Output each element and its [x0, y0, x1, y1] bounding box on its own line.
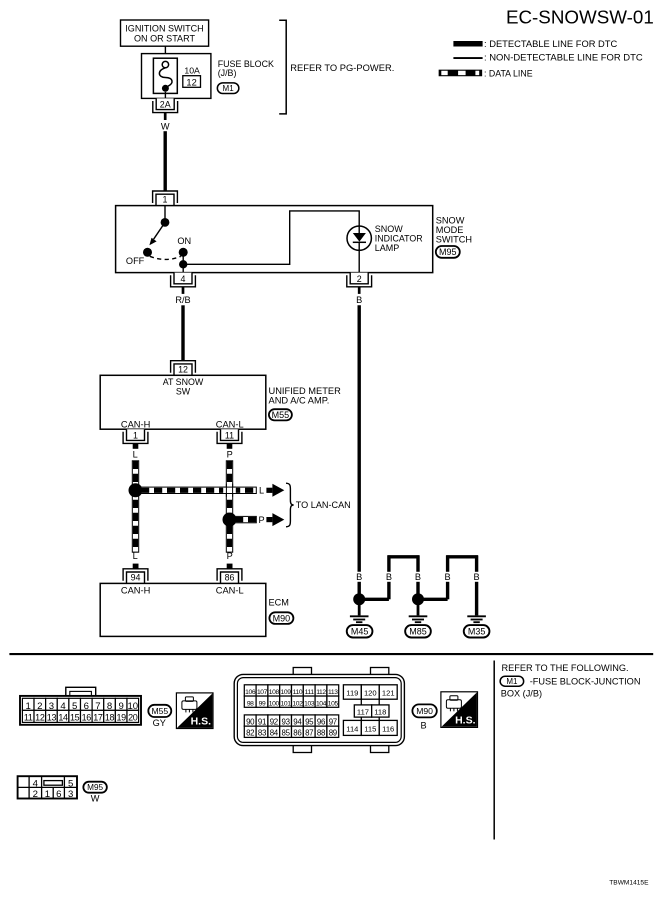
- text refer to pg-power: [290, 63, 394, 73]
- svg-text:B: B: [421, 721, 427, 731]
- svg-text:W: W: [91, 794, 100, 804]
- svg-text:IGNITION SWITCH: IGNITION SWITCH: [125, 24, 203, 34]
- svg-text:SW: SW: [176, 386, 191, 396]
- svg-text:10: 10: [127, 701, 138, 712]
- ground M45 oval: [347, 625, 373, 637]
- svg-text:11: 11: [225, 430, 234, 440]
- svg-text:(J/B): (J/B): [218, 68, 237, 78]
- svg-text:13: 13: [47, 713, 57, 723]
- svg-text:P: P: [227, 450, 233, 460]
- snow mode switch label: [436, 216, 472, 245]
- svg-text:M90: M90: [416, 706, 433, 716]
- svg-text:12: 12: [186, 77, 196, 87]
- separator vertical footer: [493, 661, 495, 840]
- connector 11 (CAN-L meter): [217, 429, 242, 443]
- svg-text:12: 12: [178, 364, 188, 374]
- svg-text:112: 112: [316, 689, 326, 696]
- svg-text:H.S.: H.S.: [455, 714, 476, 726]
- P branch label and arrow: [259, 513, 285, 526]
- wire B (black) from switch: [356, 287, 362, 572]
- svg-text:15: 15: [70, 713, 80, 723]
- separator line top of footer: [9, 653, 653, 655]
- H.S. icon right: [441, 692, 478, 728]
- svg-text:5: 5: [68, 778, 73, 789]
- svg-text:6: 6: [56, 789, 61, 800]
- svg-text:98: 98: [247, 700, 254, 707]
- svg-text:4: 4: [181, 274, 186, 284]
- svg-text:102: 102: [292, 700, 303, 707]
- legend non-detectable line: [453, 53, 642, 64]
- svg-text:82: 82: [246, 729, 254, 738]
- svg-text:P: P: [259, 515, 265, 525]
- fuse F12 10A symbol: [153, 58, 177, 98]
- snow mode switch box: [116, 206, 433, 273]
- svg-text:CAN-L: CAN-L: [216, 419, 244, 429]
- svg-text:10A: 10A: [184, 66, 200, 76]
- svg-text:L: L: [259, 486, 264, 496]
- svg-text:L: L: [133, 551, 138, 561]
- svg-text:ECM: ECM: [269, 598, 289, 608]
- svg-text:SWITCH: SWITCH: [436, 234, 472, 244]
- svg-text:REFER TO THE FOLLOWING.: REFER TO THE FOLLOWING.: [502, 663, 629, 673]
- data line crossing window: [223, 484, 236, 497]
- svg-text:12: 12: [35, 713, 45, 723]
- title EC-SNOWSW-01: [506, 6, 654, 27]
- wire B into ground 1: [358, 582, 361, 600]
- wire ignition to fuse: [164, 46, 166, 61]
- connector 86 (CAN-L ECM): [217, 569, 242, 584]
- wire loop ground2 to ground3: [418, 555, 478, 615]
- svg-text:GY: GY: [153, 718, 166, 728]
- svg-text:121: 121: [382, 688, 395, 697]
- svg-text:104: 104: [316, 700, 327, 707]
- svg-text:5: 5: [72, 701, 77, 712]
- svg-text:CAN-L: CAN-L: [216, 585, 244, 595]
- svg-text:B: B: [445, 572, 451, 582]
- svg-text:: DATA LINE: : DATA LINE: [484, 68, 533, 78]
- connector 2: [347, 273, 372, 287]
- svg-text:TBWM1415E: TBWM1415E: [609, 879, 649, 886]
- M55 connector pinout: [20, 687, 141, 725]
- svg-text:99: 99: [259, 700, 266, 707]
- svg-text:W: W: [161, 121, 170, 131]
- svg-text:M1: M1: [223, 84, 235, 93]
- svg-text:CAN-H: CAN-H: [121, 585, 150, 595]
- svg-text:M90: M90: [273, 613, 291, 623]
- svg-text:EC-SNOWSW-01: EC-SNOWSW-01: [506, 6, 654, 27]
- M90 oval footer: [412, 704, 436, 717]
- svg-text:1: 1: [26, 701, 31, 712]
- svg-text:87: 87: [305, 729, 313, 738]
- svg-text:92: 92: [270, 717, 278, 726]
- svg-text:9: 9: [118, 701, 123, 712]
- svg-text:94: 94: [293, 717, 302, 726]
- switch output junction dot: [179, 260, 187, 268]
- svg-text:84: 84: [270, 729, 279, 738]
- OFF label: [126, 256, 145, 266]
- svg-text:89: 89: [329, 729, 338, 738]
- M95 connector pinout: [18, 776, 77, 800]
- CAN-L junction dot: [223, 513, 237, 527]
- svg-text:111: 111: [305, 689, 315, 696]
- wire R/B (red/black): [175, 287, 190, 361]
- svg-text:: DETECTABLE LINE FOR DTC: : DETECTABLE LINE FOR DTC: [484, 39, 618, 49]
- connector M1 oval: [217, 83, 239, 94]
- svg-text:2: 2: [33, 789, 38, 800]
- svg-text:103: 103: [304, 700, 315, 707]
- svg-text:M45: M45: [351, 627, 369, 637]
- wire loop ground1 to ground2: [359, 555, 419, 599]
- svg-text:17: 17: [93, 713, 103, 723]
- fuse block label: [218, 59, 274, 78]
- svg-text:16: 16: [82, 713, 92, 723]
- svg-text:1: 1: [133, 430, 138, 440]
- svg-text:OFF: OFF: [126, 256, 145, 266]
- connector M95 oval: [436, 246, 460, 258]
- svg-text:M35: M35: [468, 627, 486, 637]
- wire into switch pivot: [164, 206, 166, 223]
- svg-text:11: 11: [24, 713, 33, 723]
- svg-text:96: 96: [317, 717, 326, 726]
- ground symbol M85: [409, 616, 428, 622]
- svg-text:95: 95: [305, 717, 314, 726]
- svg-text:M85: M85: [409, 627, 427, 637]
- connector M90 oval: [269, 612, 293, 624]
- svg-text:M95: M95: [439, 247, 457, 257]
- wire junction to lamp: [183, 211, 359, 273]
- CAN-H branch data line to LAN: [141, 487, 256, 493]
- ECM box: [100, 583, 266, 636]
- ON contact dot: [179, 248, 188, 257]
- svg-text:3: 3: [68, 789, 73, 800]
- svg-text:L: L: [133, 450, 138, 460]
- dashed travel arc: [150, 256, 181, 259]
- svg-text:118: 118: [374, 707, 386, 716]
- connector 2A: [153, 98, 178, 112]
- svg-text:M95: M95: [87, 783, 103, 792]
- fuse value 10A and number 12: [183, 66, 201, 88]
- svg-text:: NON-DETECTABLE LINE FOR DTC: : NON-DETECTABLE LINE FOR DTC: [484, 53, 643, 64]
- drawing code TBWM1415E: [609, 879, 649, 886]
- svg-text:6: 6: [84, 701, 89, 712]
- wire W (white): [161, 113, 170, 191]
- ground M35 oval: [464, 625, 490, 637]
- svg-text:H.S.: H.S.: [191, 716, 212, 728]
- svg-text:93: 93: [282, 717, 291, 726]
- ground junction dot M45: [353, 593, 365, 615]
- svg-text:97: 97: [329, 717, 337, 726]
- H.S. icon left: [176, 693, 213, 729]
- svg-text:B: B: [474, 572, 480, 582]
- refer to the following text: [502, 663, 629, 673]
- svg-text:8: 8: [107, 701, 112, 712]
- svg-text:CAN-H: CAN-H: [121, 419, 150, 429]
- svg-text:2: 2: [37, 701, 42, 712]
- brace to lan-can: [286, 483, 294, 527]
- svg-text:14: 14: [58, 713, 68, 723]
- connector 1 (CAN-H meter): [123, 429, 148, 443]
- connector 94 (CAN-H ECM): [123, 569, 148, 584]
- ignition switch box: [121, 20, 209, 46]
- snow indicator lamp (LED): [347, 226, 371, 250]
- M95 colour W: [91, 794, 100, 804]
- svg-text:116: 116: [382, 724, 394, 733]
- M95 oval footer: [83, 782, 107, 793]
- CAN-L data line vertical: [226, 461, 232, 552]
- connector M55 oval: [269, 409, 292, 420]
- svg-text:B: B: [356, 295, 362, 305]
- M90 connector pinout: [234, 668, 404, 753]
- svg-text:BOX (J/B): BOX (J/B): [501, 688, 542, 698]
- svg-text:REFER TO PG-POWER.: REFER TO PG-POWER.: [290, 63, 394, 73]
- unified meter and a/c amp box: [100, 375, 266, 429]
- svg-text:115: 115: [364, 724, 376, 733]
- snow indicator lamp label: [375, 224, 423, 253]
- M1 oval footer: [500, 676, 524, 686]
- wire ON to connector 4: [182, 252, 184, 272]
- svg-text:TO LAN-CAN: TO LAN-CAN: [296, 500, 351, 510]
- CAN-L (P) stub below connector 11: [227, 443, 233, 459]
- svg-text:M55: M55: [151, 706, 168, 716]
- svg-text:113: 113: [328, 689, 338, 696]
- svg-text:106: 106: [245, 689, 256, 696]
- svg-text:18: 18: [105, 713, 115, 723]
- svg-text:R/B: R/B: [175, 295, 190, 305]
- svg-text:SNOW: SNOW: [375, 224, 404, 234]
- ECM label: [269, 598, 289, 608]
- wire L label lower: [133, 551, 139, 570]
- legend detectable line: [453, 39, 617, 49]
- svg-text:2A: 2A: [160, 100, 171, 110]
- fuse block junction text: [501, 676, 641, 698]
- svg-text:119: 119: [346, 688, 358, 697]
- wire L stub below connector 1: [133, 443, 139, 459]
- svg-text:-FUSE BLOCK-JUNCTION: -FUSE BLOCK-JUNCTION: [530, 676, 641, 686]
- svg-text:107: 107: [257, 689, 268, 696]
- ground symbol M35: [467, 616, 486, 622]
- svg-text:B: B: [386, 572, 392, 582]
- svg-text:20: 20: [128, 713, 138, 723]
- svg-text:ON OR START: ON OR START: [134, 34, 195, 44]
- svg-text:7: 7: [95, 701, 100, 712]
- svg-text:4: 4: [33, 778, 39, 789]
- svg-text:85: 85: [282, 729, 291, 738]
- svg-text:B: B: [356, 572, 362, 582]
- svg-text:91: 91: [258, 717, 266, 726]
- svg-text:94: 94: [131, 573, 141, 583]
- switch pivot dot: [161, 218, 170, 227]
- text to lan-can: [296, 500, 351, 510]
- svg-text:B: B: [415, 572, 421, 582]
- svg-text:4: 4: [60, 701, 66, 712]
- svg-text:M1: M1: [506, 677, 518, 686]
- svg-text:86: 86: [293, 729, 302, 738]
- svg-text:LAMP: LAMP: [375, 243, 400, 253]
- CAN-L branch data line to LAN: [235, 516, 256, 522]
- svg-text:2: 2: [357, 274, 362, 284]
- M90 colour B: [421, 721, 427, 731]
- svg-text:19: 19: [116, 713, 126, 723]
- svg-text:90: 90: [246, 717, 255, 726]
- svg-text:86: 86: [225, 573, 235, 583]
- connector 1 (snow mode switch): [153, 191, 178, 206]
- legend data line: [439, 68, 532, 78]
- svg-text:105: 105: [328, 700, 339, 707]
- svg-text:114: 114: [346, 724, 358, 733]
- svg-text:83: 83: [258, 729, 267, 738]
- svg-text:88: 88: [317, 729, 326, 738]
- svg-text:117: 117: [357, 707, 369, 716]
- ON label: [177, 236, 191, 246]
- connector 12 (meter): [171, 361, 196, 376]
- svg-text:1: 1: [45, 789, 50, 800]
- svg-text:3: 3: [49, 701, 54, 712]
- ground M85 oval: [405, 625, 431, 637]
- OFF contact dot: [143, 248, 152, 257]
- connector 4: [171, 273, 196, 287]
- ground junction dot M85: [412, 593, 424, 615]
- svg-text:108: 108: [269, 689, 280, 696]
- M55 oval footer: [148, 705, 171, 717]
- bracket refer to pg-power: [279, 20, 286, 114]
- L branch label and arrow: [259, 484, 284, 497]
- svg-text:101: 101: [281, 700, 292, 707]
- svg-text:AND A/C AMP.: AND A/C AMP.: [269, 395, 330, 405]
- CAN-H junction dot: [129, 483, 143, 497]
- svg-text:1: 1: [163, 195, 168, 205]
- svg-text:ON: ON: [177, 236, 191, 246]
- svg-text:M55: M55: [272, 410, 290, 420]
- svg-text:120: 120: [364, 688, 377, 697]
- svg-text:110: 110: [293, 689, 303, 696]
- M55 colour GY: [153, 718, 166, 728]
- svg-text:109: 109: [281, 689, 292, 696]
- wire B labels row: [356, 572, 480, 582]
- CAN-H data line vertical: [132, 461, 138, 552]
- svg-text:P: P: [227, 551, 233, 561]
- unified meter label: [269, 386, 342, 405]
- wire P label lower: [227, 551, 233, 570]
- ground symbol M45: [350, 616, 369, 622]
- svg-text:100: 100: [269, 700, 280, 707]
- switch lever arrow: [149, 222, 165, 245]
- fuse block box: [142, 54, 211, 99]
